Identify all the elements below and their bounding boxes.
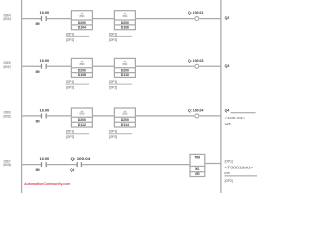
function block B1a: ++(590) D200 D104 <box>71 11 92 30</box>
svg-text:Q: 100.03: Q: 100.03 <box>188 59 204 63</box>
wire rung 3: block 1 to block 2 <box>92 115 114 117</box>
wire rung 2: block 2 to coil <box>135 65 194 67</box>
wire rung 1: coil to right rail <box>199 18 221 20</box>
svg-text:D200: D200 <box>78 118 86 122</box>
svg-text:[OP2]: [OP2] <box>225 179 233 183</box>
svg-text:[OP2]: [OP2] <box>66 38 75 42</box>
svg-text:Q: 100.04: Q: 100.04 <box>188 108 204 112</box>
contact 10.00 / M0 <box>41 16 43 21</box>
wire rung 2: block 1 to block 2 <box>92 65 114 67</box>
wire rung 2: contact to block 1 <box>46 65 71 67</box>
contact Q: 100.04 / Q4 <box>76 162 78 167</box>
wire rung 3: coil to right rail <box>199 115 221 117</box>
svg-text:[OP1]: [OP1] <box>66 80 75 84</box>
svg-text:10.00: 10.00 <box>40 109 50 113</box>
svg-text:#50: #50 <box>195 172 200 176</box>
timer block TIM 001 #50 <box>190 154 205 176</box>
svg-text:[OP1]: [OP1] <box>66 32 75 36</box>
svg-text:(000021): (000021) <box>3 114 11 118</box>
contact 10.00 / M0 <box>41 162 43 167</box>
svg-text:AutomationCommunity.com: AutomationCommunity.com <box>24 182 70 186</box>
svg-text:[OP2]: [OP2] <box>66 86 75 90</box>
svg-text:D200: D200 <box>121 69 129 73</box>
svg-text:[OP1]: [OP1] <box>109 130 118 134</box>
svg-text:M0: M0 <box>36 168 40 172</box>
svg-text:TIM: TIM <box>195 156 201 160</box>
right power rail <box>220 0 222 193</box>
wire rung 2: left rail to contact <box>22 65 42 67</box>
contact 10.00 / M0 <box>41 64 43 69</box>
wire rung 3: block 2 to coil <box>135 115 194 117</box>
svg-text:(590): (590) <box>80 62 85 66</box>
wire rung 1: left rail to contact <box>22 18 42 20</box>
svg-text:[OP2]: [OP2] <box>66 135 75 139</box>
output coil Q: 100.03 <box>195 64 199 68</box>
wire rung 2: coil to right rail <box>199 65 221 67</box>
svg-text:D106: D106 <box>121 26 129 30</box>
svg-text:D200: D200 <box>78 21 86 25</box>
timer annotation underline <box>225 175 258 177</box>
wire rung 1: block 2 to coil <box>135 18 194 20</box>
svg-text:M0: M0 <box>36 120 40 124</box>
svg-text:Q: 100.04: Q: 100.04 <box>71 157 91 161</box>
svg-text:D104: D104 <box>78 26 86 30</box>
svg-text:[OP1]: [OP1] <box>109 80 118 84</box>
svg-text:Q3: Q3 <box>225 64 230 68</box>
wire rung 4: left rail to contact 1 <box>22 164 42 166</box>
function block B3b: ++(590) D200 D114 <box>114 108 135 127</box>
output coil Q: 100.01 <box>195 17 199 21</box>
wire rung 4: contact 2 to timer <box>81 164 190 166</box>
node Q4 annotation underline <box>231 112 256 114</box>
svg-text:001: 001 <box>195 167 200 171</box>
svg-text:<100.04>: <100.04> <box>225 116 246 120</box>
svg-text:M0: M0 <box>36 70 40 74</box>
svg-text:(000013): (000013) <box>3 17 11 21</box>
wire rung 1: block 1 to block 2 <box>92 18 114 20</box>
wire rung 4: contact 1 to contact 2 <box>46 164 77 166</box>
svg-text:10.00: 10.00 <box>40 59 50 63</box>
svg-text:D112: D112 <box>78 123 86 127</box>
function block B2a: ++(590) D200 D108 <box>71 58 92 77</box>
svg-text:(590): (590) <box>123 112 128 116</box>
svg-text:[OP1]: [OP1] <box>225 160 233 164</box>
svg-text:Q: 100.01: Q: 100.01 <box>188 11 204 15</box>
function block B1b: ++(590) D200 D106 <box>114 11 135 30</box>
wire rung 3: left rail to contact <box>22 115 42 117</box>
svg-text:D200: D200 <box>121 21 129 25</box>
svg-text:D114: D114 <box>121 123 129 127</box>
svg-text:10.00: 10.00 <box>40 157 50 161</box>
svg-text:(000026): (000026) <box>3 163 11 167</box>
svg-text:(000017): (000017) <box>3 65 11 69</box>
svg-text:[OP2]: [OP2] <box>109 135 118 139</box>
svg-text:[OP1]: [OP1] <box>109 32 118 36</box>
svg-text:Q4: Q4 <box>225 108 230 112</box>
svg-text:D200: D200 <box>121 118 129 122</box>
svg-text:(590): (590) <box>123 62 128 66</box>
svg-text:D108: D108 <box>78 73 86 77</box>
svg-text:a25: a25 <box>225 122 231 126</box>
svg-text:10.00: 10.00 <box>40 11 50 15</box>
svg-text:b05: b05 <box>224 171 230 175</box>
contact 10.00 / M0 <box>41 113 43 118</box>
output coil Q: 100.04 <box>195 114 199 118</box>
svg-text:[OP2]: [OP2] <box>109 38 118 42</box>
svg-text:Q4: Q4 <box>70 168 74 172</box>
wire rung 1: contact to block 1 <box>46 18 71 20</box>
function block B2b: ++(590) D200 D110 <box>114 58 135 77</box>
svg-text:(590): (590) <box>80 112 85 116</box>
wire rung 3: contact to block 1 <box>46 115 71 117</box>
svg-text:D200: D200 <box>78 69 86 73</box>
svg-text:(590): (590) <box>123 14 128 18</box>
svg-text:Q2: Q2 <box>225 16 230 20</box>
svg-text:D110: D110 <box>121 73 129 77</box>
function block B3a: ++(590) D200 D112 <box>71 108 92 127</box>
svg-text:<T0001(bit)>: <T0001(bit)> <box>224 166 253 170</box>
svg-text:[OP1]: [OP1] <box>66 130 75 134</box>
wire rung 4: timer to right rail <box>205 163 221 165</box>
svg-text:(590): (590) <box>80 14 85 18</box>
svg-text:[OP2]: [OP2] <box>109 86 118 90</box>
left power rail <box>21 0 23 193</box>
svg-text:M0: M0 <box>36 22 40 26</box>
